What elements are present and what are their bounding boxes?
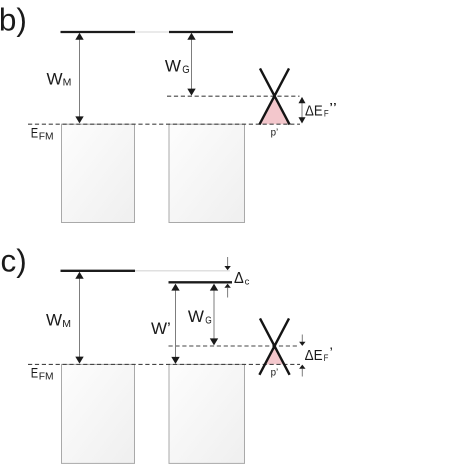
metal box (panel c) [62,364,135,463]
svg-text:c: c [245,277,250,288]
metal vacuum level line (panel c) [61,270,136,272]
svg-text:E: E [31,125,38,141]
svg-text:’’: ’’ [329,100,337,115]
svg-text:W: W [47,69,63,88]
graphene box (panel b) [169,124,245,222]
E_FM dashed level (panel c) [28,363,300,365]
Dirac point dashed level (panel c) [169,345,300,347]
pink filled triangle (hole pocket, panel c) [265,347,284,365]
faint vacuum alignment line (panel b) [135,31,169,33]
E_FM dashed level (panel b) [28,123,300,125]
Delta_c lower arrow (panel c) [224,284,230,298]
Dirac cone X (panel c) [260,318,290,374]
svg-text:b): b) [0,1,27,37]
svg-text:F: F [324,353,329,364]
svg-text:W: W [46,311,62,330]
W_M double arrow (panel b) [75,33,83,124]
W_G double arrow (panel b) [187,33,195,96]
metal vacuum level line (panel b) [61,31,136,33]
svg-text:FM: FM [39,132,54,143]
svg-text:FM: FM [39,372,54,383]
Delta_c upper arrow (panel c) [224,257,230,270]
svg-text:p’: p’ [271,127,279,139]
svg-text:ΔE: ΔE [305,104,323,120]
graphene vacuum level line (panel b) [169,31,233,33]
svg-text:W: W [188,307,204,326]
svg-text:ΔE: ΔE [305,348,323,364]
Delta E_F' upper arrow (panel c) [299,335,305,346]
graphene box (panel c) [169,364,245,463]
metal box (panel b) [62,124,135,222]
Dirac point dashed level (panel b) [167,95,300,97]
svg-text:’: ’ [330,345,333,360]
svg-text:G: G [205,315,212,327]
pink filled triangle (hole pocket, panel b) [260,97,290,125]
faint vacuum alignment line (panel c) [135,270,230,272]
svg-text:G: G [182,64,189,76]
svg-text:p’: p’ [271,367,279,379]
svg-text:F: F [324,109,329,120]
Delta E_F' lower arrow (panel c) [299,365,305,377]
W_G double arrow (panel c) [210,284,218,346]
Delta E_F'' double arrow (panel b) [299,97,306,124]
svg-text:M: M [62,318,71,330]
Dirac cone X (panel b) [260,68,290,124]
svg-text:W’: W’ [151,319,171,338]
svg-text:M: M [63,76,72,88]
svg-text:Δ: Δ [234,270,244,287]
W' double arrow (panel c) [171,284,179,364]
W_M double arrow (panel c) [75,272,83,364]
svg-text:W: W [165,56,181,75]
graphene vacuum level line (panel c) [169,281,233,283]
svg-text:c): c) [1,243,27,279]
svg-text:E: E [31,365,38,381]
